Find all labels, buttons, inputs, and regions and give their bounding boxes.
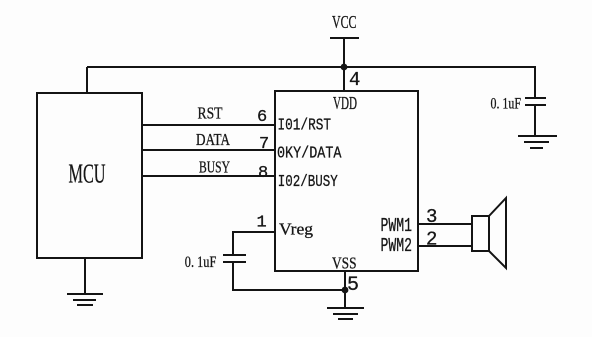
svg-text:RST: RST [198,104,223,123]
svg-text:3: 3 [426,206,437,228]
svg-text:0. 1uF: 0. 1uF [491,96,522,113]
svg-text:4: 4 [349,69,360,91]
svg-text:8: 8 [258,164,268,183]
svg-text:5: 5 [347,274,359,297]
svg-text:0KY/DATA: 0KY/DATA [277,145,342,164]
svg-text:2: 2 [426,229,437,251]
svg-text:VSS: VSS [332,254,357,273]
svg-text:MCU: MCU [69,159,106,189]
svg-text:Vreg: Vreg [279,220,314,239]
svg-text:VCC: VCC [332,12,357,32]
svg-text:BUSY: BUSY [199,158,230,177]
svg-text:1: 1 [257,214,267,233]
svg-text:7: 7 [259,135,269,154]
svg-text:6: 6 [257,108,267,127]
svg-text:PWM1: PWM1 [381,215,413,237]
svg-text:0. 1uF: 0. 1uF [185,254,217,271]
svg-text:I02/BUSY: I02/BUSY [278,173,338,192]
svg-text:PWM2: PWM2 [381,235,413,257]
svg-text:DATA: DATA [196,130,231,149]
svg-text:VDD: VDD [333,93,357,113]
svg-text:I01/RST: I01/RST [278,117,332,136]
